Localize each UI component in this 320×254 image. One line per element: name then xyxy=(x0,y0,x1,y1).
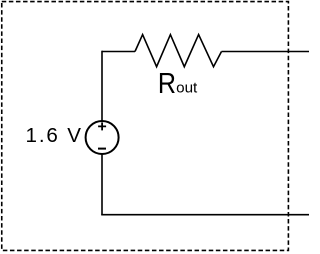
wire: top from source node to resistor xyxy=(102,51,135,53)
minus sign of source xyxy=(98,148,106,150)
svg-text:R: R xyxy=(158,68,176,100)
wire: left vertical from top wire down to source + terminal xyxy=(101,51,103,121)
voltage source V1 (1.6 V) circle xyxy=(86,121,119,154)
resistor Rout zigzag xyxy=(135,35,222,67)
wire: bottom to right edge (output terminal) xyxy=(101,214,309,216)
wire: source - terminal down to bottom wire xyxy=(101,154,103,215)
wire: resistor to right edge (output terminal) xyxy=(222,51,310,53)
svg-text:1.6 V: 1.6 V xyxy=(26,124,82,147)
plus sign of source xyxy=(98,122,106,130)
svg-text:out: out xyxy=(176,81,197,97)
